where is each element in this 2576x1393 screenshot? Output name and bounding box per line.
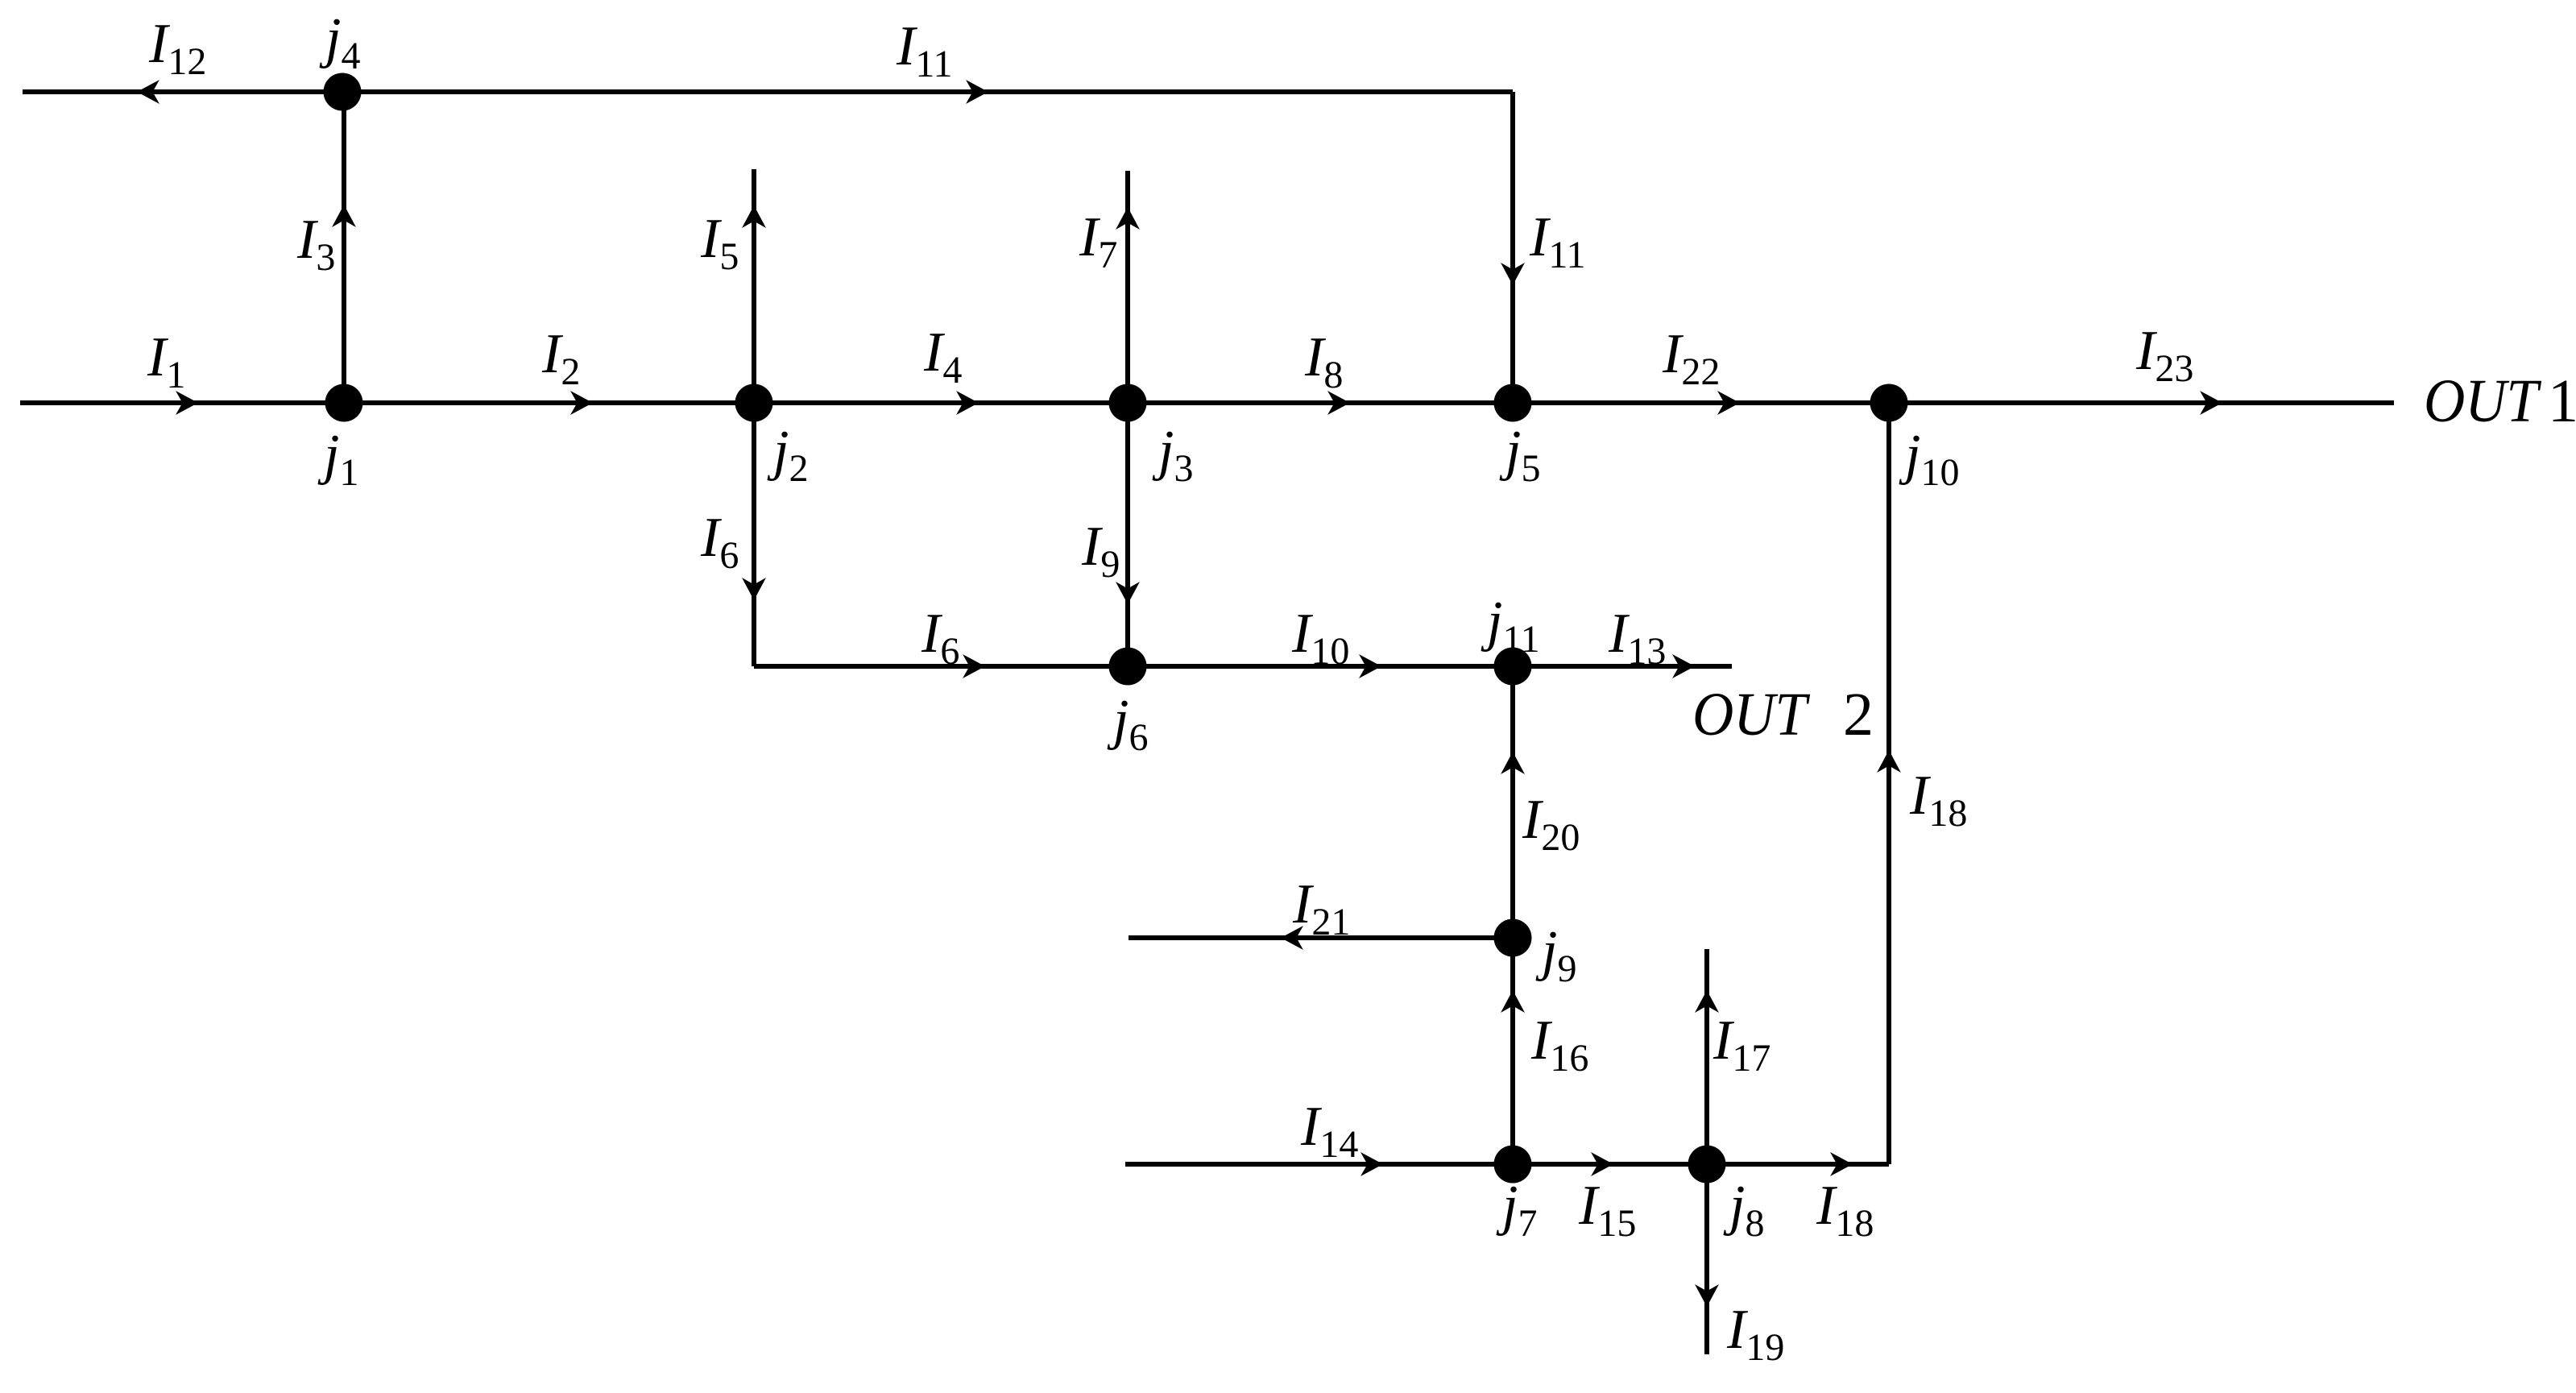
svg-text:OUT2: OUT2 (1692, 681, 1874, 748)
svg-text:OUT1: OUT1 (2424, 367, 2576, 435)
